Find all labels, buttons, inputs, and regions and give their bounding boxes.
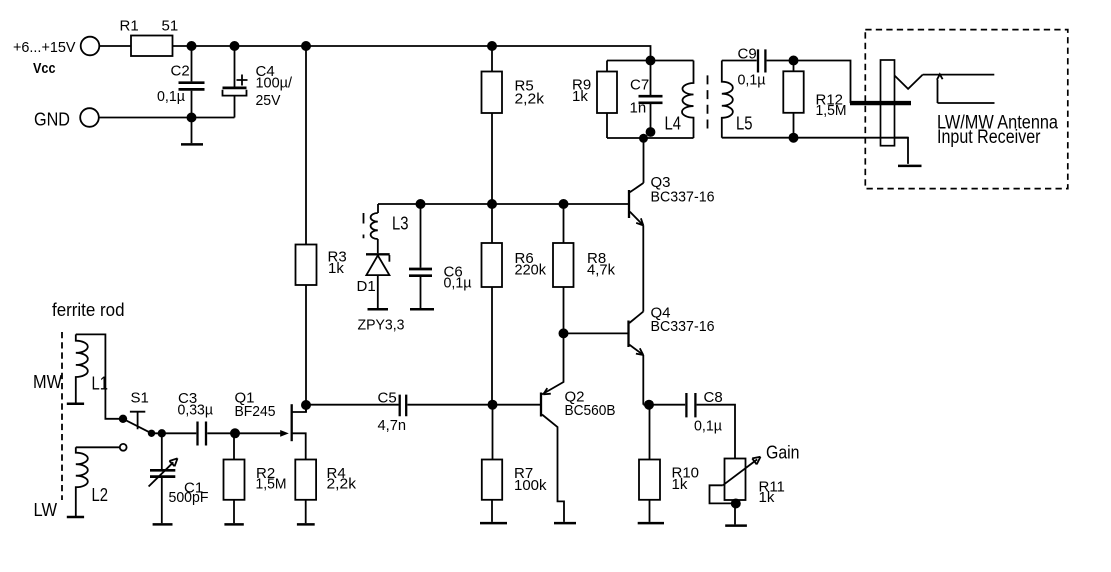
capacitor C9 [758, 49, 765, 72]
ground under C1 [153, 523, 173, 526]
svg-text:51: 51 [162, 18, 179, 35]
wire R11 wiper [710, 485, 736, 503]
node rail-R5 [487, 41, 497, 51]
node rail-R3 [301, 41, 311, 51]
svg-text:2,2k: 2,2k [515, 91, 545, 108]
svg-text:BF245: BF245 [235, 403, 276, 420]
wire R10 top [649, 405, 651, 460]
svg-text:C2: C2 [171, 63, 190, 80]
wire C1 bottom [161, 477, 163, 524]
wire receiver input vertical [937, 80, 939, 103]
node C7 bottom [646, 127, 656, 137]
capacitor C5 [400, 395, 407, 417]
wire R12 top [793, 61, 795, 72]
terminal bar L2 [67, 516, 84, 519]
resistor R3 [296, 245, 317, 286]
resistor R4 [295, 460, 316, 500]
wire jack sleeve to ground [895, 138, 909, 164]
transistor Q4 [627, 321, 629, 348]
svg-text:100µ/: 100µ/ [256, 75, 293, 92]
wire C8 to R11 [697, 405, 735, 459]
wire R6 top [491, 204, 493, 243]
switch S1 contact [148, 430, 155, 437]
contact break mark [937, 74, 943, 80]
svg-text:+6...+15V: +6...+15V [13, 39, 76, 56]
svg-text:L5: L5 [736, 114, 753, 134]
svg-text:R1: R1 [120, 18, 139, 35]
svg-text:25V: 25V [256, 92, 281, 109]
svg-text:0,1µ: 0,1µ [738, 72, 766, 89]
node S1-C1-C3 [158, 429, 166, 437]
transistor Q1 [291, 404, 293, 441]
svg-text:BC337-16: BC337-16 [651, 318, 715, 335]
wire R11 bottom [734, 500, 736, 524]
capacitor C1 [150, 470, 175, 476]
wire C4 bottom [234, 96, 236, 118]
node R8-Q4-Q2 [559, 328, 569, 338]
svg-text:ZPY3,3: ZPY3,3 [358, 317, 405, 334]
wire R7 top [492, 405, 494, 460]
gate arrow Q1 [280, 430, 289, 437]
node R11 wiper-bottom [731, 499, 741, 509]
jack tip contact [895, 75, 923, 89]
wire tank bottom [607, 137, 694, 139]
ground under D1 [368, 308, 389, 311]
node Q4-R10-C8 [644, 400, 654, 410]
resistor R8 [553, 243, 574, 287]
ground under R11 [725, 524, 747, 527]
svg-text:1k: 1k [328, 260, 344, 277]
wire L3 to D1 [377, 239, 379, 253]
svg-text:BC560B: BC560B [565, 402, 616, 419]
node tank bottom Q3 [639, 134, 648, 143]
capacitor C7 [639, 96, 663, 103]
inductor L2 [76, 447, 88, 516]
svg-text:Vcc: Vcc [33, 60, 56, 77]
capacitor C2 [179, 83, 205, 90]
svg-text:ferrite rod: ferrite rod [52, 300, 125, 320]
svg-text:C9: C9 [738, 46, 757, 63]
wire C4 top [234, 46, 236, 87]
wire Vcc to R1 [99, 45, 131, 47]
node bus-R6-R7 [488, 400, 498, 410]
wire R4 bottom [305, 500, 307, 523]
ground under R10 [638, 522, 664, 525]
wire R9 top [606, 61, 608, 72]
wire node to C3 [152, 432, 197, 434]
switch S1 pole [119, 415, 127, 423]
transistor Q2 [540, 393, 542, 417]
ground under R7 [480, 522, 507, 525]
wire C6 bottom [420, 277, 422, 308]
jack sleeve [881, 60, 895, 146]
svg-text:0,1µ: 0,1µ [694, 418, 722, 435]
resistor R6 [482, 243, 503, 287]
node gnd-C2 [187, 113, 197, 123]
svg-text:220k: 220k [515, 262, 547, 279]
node rail-C4 [230, 41, 240, 51]
resistor R12 [783, 71, 803, 113]
svg-text:C8: C8 [704, 389, 723, 406]
inductor L5 [722, 61, 733, 138]
wire receiver input bottom [938, 102, 995, 104]
wire C6 top [420, 204, 422, 268]
svg-text:L3: L3 [392, 214, 409, 234]
wire C2 top [191, 46, 193, 81]
svg-text:Input Receiver: Input Receiver [937, 127, 1041, 148]
svg-text:L2: L2 [92, 485, 109, 505]
node bus-R5-R6 [487, 199, 497, 209]
wire GND rail [99, 117, 235, 119]
wire L5 top to C9 [722, 60, 757, 62]
wire R2 bottom [233, 500, 235, 523]
capacitor C8 [686, 393, 695, 417]
wire C2 bottom [191, 91, 193, 118]
wire D1 bottom [377, 275, 379, 308]
wire Q4 emitter to C8 [643, 404, 685, 406]
wire C7 top [650, 61, 652, 96]
svg-text:LW: LW [34, 500, 58, 520]
ground under jack [898, 165, 922, 168]
svg-text:1k: 1k [759, 489, 775, 506]
wire R2 top [233, 433, 235, 459]
wire R8 bottom [563, 287, 565, 333]
svg-text:1,5M: 1,5M [256, 476, 287, 493]
receiver dashed box [865, 30, 1068, 189]
resistor R2 [224, 460, 245, 500]
inductor L4 [682, 61, 694, 139]
svg-text:BC337-16: BC337-16 [651, 189, 715, 206]
wire R8 top [563, 204, 565, 243]
svg-text:C7: C7 [630, 77, 649, 94]
svg-text:100k: 100k [514, 477, 547, 494]
svg-text:500pF: 500pF [169, 489, 209, 506]
svg-text:L4: L4 [665, 114, 682, 134]
capacitor C6 [409, 269, 432, 276]
transistor Q3 [628, 190, 630, 218]
terminal Vcc [81, 37, 100, 56]
svg-text:4,7n: 4,7n [378, 417, 407, 434]
switch S1 open contact [120, 444, 127, 451]
wire R3 column [305, 46, 307, 245]
svg-text:1k: 1k [672, 476, 688, 493]
svg-text:0,1µ: 0,1µ [157, 88, 185, 105]
node bus-R8 [559, 199, 569, 209]
resistor R9 [597, 72, 617, 114]
node C3-R2 [230, 428, 240, 438]
wire L3 stem [377, 204, 379, 213]
wire C7 bottom [650, 104, 652, 132]
wire top rail [173, 46, 651, 61]
core mark L3 [363, 213, 365, 238]
wire node to Q4 base [564, 332, 628, 334]
svg-text:Gain: Gain [766, 443, 800, 463]
inductor L1 [76, 334, 88, 403]
resistor R1 [131, 36, 173, 57]
svg-text:GND: GND [34, 110, 70, 130]
wire R6 to signal bus [491, 287, 493, 405]
node Q1 drain [301, 400, 311, 410]
node R12 bottom [789, 133, 799, 143]
svg-text:0,1µ: 0,1µ [444, 275, 472, 292]
node rail-C2 [187, 41, 197, 51]
wire R9 bottom [606, 113, 608, 138]
capacitor C3 [198, 422, 207, 446]
wire C3 to Q1 gate [207, 432, 281, 434]
ground under Q2 [554, 522, 576, 525]
resistor R10 [639, 460, 660, 500]
transformer core dashes [707, 75, 709, 132]
svg-text:S1: S1 [131, 390, 149, 407]
svg-text:D1: D1 [357, 278, 376, 295]
ferrite rod dashed line [61, 332, 63, 500]
ground under C2 [191, 118, 193, 144]
ground under R2 [224, 523, 243, 526]
ground under C6 [410, 308, 434, 311]
potentiometer R11 [725, 459, 746, 501]
wire signal bus [306, 404, 399, 406]
node tank top [646, 56, 656, 66]
inductor L3 [371, 213, 378, 239]
svg-text:MW: MW [33, 372, 62, 392]
wire R5 to bus [491, 113, 493, 204]
wire L5 bottom to jack [722, 137, 908, 139]
wire R10 bottom [649, 500, 651, 522]
svg-text:1k: 1k [572, 88, 588, 105]
svg-text:1,5M: 1,5M [816, 102, 847, 119]
svg-text:4,7k: 4,7k [587, 262, 615, 279]
svg-text:C5: C5 [378, 390, 397, 407]
wire R7 bottom [491, 500, 493, 522]
terminal GND [80, 108, 99, 127]
wire L1 to switch [76, 334, 123, 418]
svg-text:1n: 1n [630, 100, 647, 117]
wire bias bus [378, 203, 628, 205]
wire R3 to Q1 drain [305, 285, 307, 412]
wire C9 to R12 [767, 61, 851, 104]
svg-text:2,2k: 2,2k [327, 476, 357, 493]
svg-text:0,33µ: 0,33µ [178, 402, 214, 419]
wire R5 column [491, 46, 493, 72]
switch S1 actuator [130, 412, 145, 430]
wire tank top [607, 60, 694, 62]
wire R12 bottom [793, 113, 795, 138]
node C9-R12 [789, 56, 799, 66]
wire C5 to Q2 base [407, 404, 540, 406]
capacitor C4 [223, 87, 247, 90]
terminal bar L1 [67, 402, 84, 405]
wire receiver input top [923, 74, 995, 76]
switch S1 lever [123, 419, 152, 434]
node bus-C6 [416, 199, 426, 209]
wire L2 to open contact [76, 446, 120, 448]
resistor R5 [482, 72, 503, 114]
antenna coupling bar [850, 101, 911, 105]
resistor R7 [482, 460, 502, 500]
ground under R4 [297, 523, 315, 526]
wire C1 top [161, 433, 163, 469]
diode D1 [366, 253, 390, 255]
